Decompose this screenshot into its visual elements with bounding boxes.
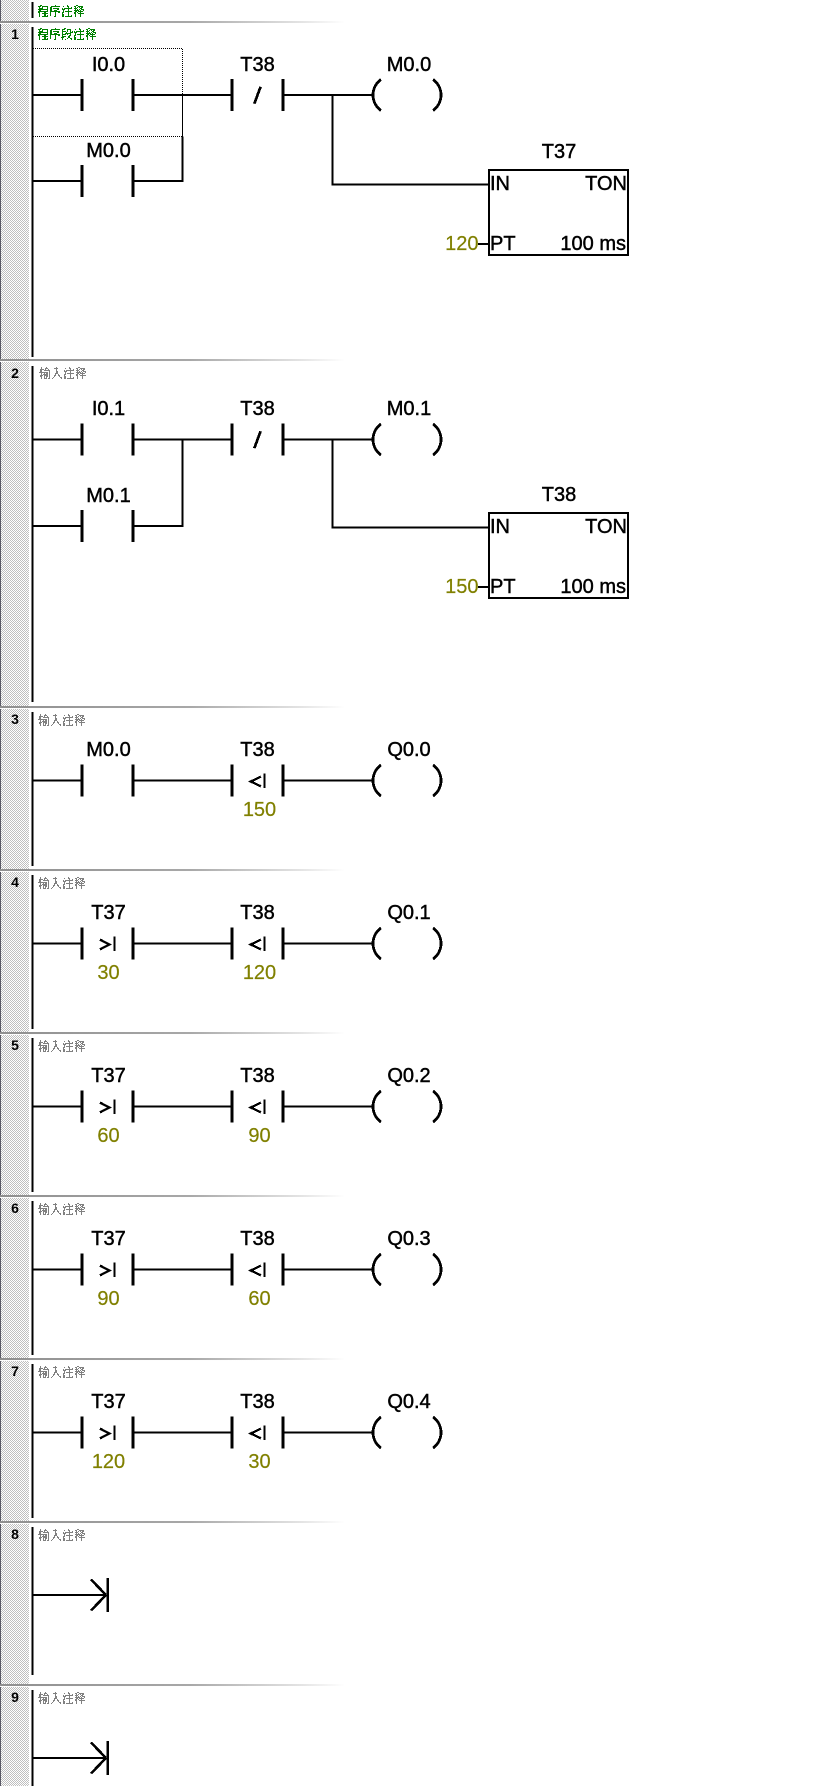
label M0.0 coil — [387, 54, 431, 77]
contact T38 (compare <I) — [231, 765, 285, 797]
comment cursor tick — [32, 1527, 34, 1543]
value 30 — [248, 1451, 270, 1474]
comment cursor tick — [32, 1364, 34, 1380]
comment cursor tick — [32, 1038, 34, 1054]
network 1 comment 程序段注释 — [38, 28, 108, 41]
pin PT — [490, 233, 516, 256]
wire T38 to coil Q0.4 — [285, 1431, 373, 1433]
coil Q0.3 — [373, 1254, 441, 1285]
pin PT — [490, 576, 516, 599]
label T37 — [91, 1228, 125, 1251]
label M0.0 contact — [86, 140, 130, 163]
open network wire — [34, 1757, 105, 1759]
value 90 — [248, 1125, 270, 1148]
label T37 — [91, 902, 125, 925]
network number 5 — [7, 1037, 23, 1053]
network separator — [0, 1195, 345, 1197]
value 30 — [97, 962, 119, 985]
wire — [182, 439, 184, 528]
pin TON — [585, 173, 627, 196]
pin IN — [490, 173, 510, 196]
wire rail to contact M0.0 — [34, 180, 81, 182]
network 8 comment 输入注释 — [38, 1529, 108, 1542]
wire T37 to T38 — [135, 1268, 231, 1270]
wire T38 to coil M0.1 — [285, 438, 373, 440]
margin column — [0, 0, 29, 1786]
open network wire — [34, 1594, 105, 1596]
network number 9 — [7, 1689, 23, 1705]
network 8 power rail — [32, 1527, 34, 1675]
contact I0.1 (NO) — [81, 424, 135, 456]
OR branch vertical — [182, 137, 184, 183]
value 150 — [243, 799, 276, 822]
wire T38 to coil M0.0 — [285, 94, 373, 96]
network number 3 — [7, 711, 23, 727]
PT value tick — [478, 243, 488, 245]
separator under program comment — [0, 21, 345, 23]
network separator — [0, 1684, 345, 1686]
wire T38 to coil Q0.1 — [285, 942, 373, 944]
timer T37 box — [489, 170, 628, 255]
contact T38 (NC) — [231, 424, 285, 456]
label T38 — [240, 902, 274, 925]
wire M0.0 to T38 — [135, 779, 231, 781]
wire M0.1 to branch — [135, 525, 184, 527]
wire rail to contact M0.0 — [34, 779, 81, 781]
preset value 150 — [445, 576, 478, 599]
open network arrow 8 — [91, 1578, 109, 1612]
label 100 ms — [560, 233, 626, 256]
comment cursor tick — [32, 27, 34, 43]
label Q0.2 — [387, 1065, 430, 1088]
label I0.0 — [92, 54, 125, 77]
network separator — [0, 1521, 345, 1523]
value 60 — [97, 1125, 119, 1148]
wire T38 to coil Q0.2 — [285, 1105, 373, 1107]
coil Q0.2 — [373, 1091, 441, 1122]
OR branch vertical (thin inside selection) — [182, 94, 183, 137]
wire T37 to T38 — [135, 942, 231, 944]
label 100 ms — [560, 576, 626, 599]
timer label T38 — [542, 484, 576, 507]
coil Q0.0 — [373, 765, 441, 796]
contact T38 (compare <I) — [231, 928, 285, 960]
program comment text 程序注释 — [38, 5, 108, 18]
wire I0.1 to T38 — [135, 438, 231, 440]
network 1 power rail — [32, 27, 34, 357]
preset value 120 — [445, 233, 478, 256]
contact M0.0 (NO) — [81, 165, 135, 197]
network separator — [0, 869, 345, 871]
wire T37 to T38 — [135, 1105, 231, 1107]
program title cursor tick — [32, 2, 34, 18]
wire — [332, 94, 334, 186]
contact T38 (NC) — [231, 79, 285, 111]
timer T38 box — [489, 513, 628, 598]
label T37 — [91, 1391, 125, 1414]
network 6 power rail — [32, 1201, 34, 1355]
network separator — [0, 1358, 345, 1360]
label M0.1 coil — [387, 398, 431, 421]
value 90 — [97, 1288, 119, 1311]
wire rail to contact M0.1 — [34, 525, 81, 527]
network 6 comment 输入注释 — [38, 1203, 108, 1216]
label T38 — [240, 54, 274, 77]
label Q0.1 — [387, 902, 430, 925]
network number 2 — [7, 365, 23, 381]
contact M0.0 (NO) — [81, 765, 135, 797]
comment cursor tick — [32, 1690, 34, 1706]
network number 4 — [7, 874, 23, 890]
wire to timer T37 IN — [332, 183, 491, 185]
label I0.1 — [92, 398, 125, 421]
wire to timer T38 IN — [332, 526, 491, 528]
network number 6 — [7, 1200, 23, 1216]
comment cursor tick — [32, 1201, 34, 1217]
network 4 power rail — [32, 875, 34, 1029]
label T38 — [240, 1391, 274, 1414]
wire I0.0 to T38 — [135, 94, 231, 96]
wire rail to contact T37 — [34, 1268, 81, 1270]
contact I0.0 (NO) — [81, 79, 135, 111]
wire rail to contact I0.0 — [34, 94, 81, 96]
open network arrow 9 — [91, 1741, 109, 1775]
value 120 — [243, 962, 276, 985]
label T38 — [240, 739, 274, 762]
network number 8 — [7, 1526, 23, 1542]
network 9 comment 输入注释 — [38, 1692, 108, 1705]
wire rail to contact T37 — [34, 1431, 81, 1433]
network 4 comment 输入注释 — [38, 877, 108, 890]
comment cursor tick — [32, 366, 34, 382]
wire T37 to T38 — [135, 1431, 231, 1433]
contact T37 (compare) — [81, 928, 135, 960]
network separator — [0, 359, 345, 361]
timer label T37 — [542, 141, 576, 164]
label T38 network 2 — [240, 398, 274, 421]
wire T38 to coil Q0.3 — [285, 1268, 373, 1270]
value 120 — [92, 1451, 125, 1474]
network number 7 — [7, 1363, 23, 1379]
wire rail to contact I0.1 — [34, 438, 81, 440]
pin TON — [585, 516, 627, 539]
value 60 — [248, 1288, 270, 1311]
label Q0.0 — [387, 739, 430, 762]
label T38 — [240, 1228, 274, 1251]
label M0.1 contact — [86, 485, 130, 508]
contact T37 (compare) — [81, 1417, 135, 1449]
network 5 comment 输入注释 — [38, 1040, 108, 1053]
wire — [332, 439, 334, 529]
coil M0.0 — [373, 80, 441, 111]
label T37 — [91, 1065, 125, 1088]
network 2 power rail — [32, 366, 34, 702]
network 9 power rail — [32, 1690, 34, 1786]
contact T38 (compare <I) — [231, 1417, 285, 1449]
coil Q0.4 — [373, 1417, 441, 1448]
coil Q0.1 — [373, 928, 441, 959]
network separator — [0, 706, 345, 708]
wire rail to contact T37 — [34, 942, 81, 944]
wire T38 to coil Q0.0 — [285, 779, 373, 781]
wire M0.0 to branch — [135, 180, 184, 182]
PT value tick — [478, 586, 488, 588]
network 3 comment 输入注释 — [38, 714, 108, 727]
comment cursor tick — [32, 712, 34, 728]
label Q0.3 — [387, 1228, 430, 1251]
contact M0.1 (NO) — [81, 510, 135, 542]
wire rail to contact T37 — [34, 1105, 81, 1107]
contact T38 (compare <I) — [231, 1091, 285, 1123]
network 5 power rail — [32, 1038, 34, 1192]
comment cursor tick — [32, 875, 34, 891]
network 7 power rail — [32, 1364, 34, 1518]
coil M0.1 — [373, 424, 441, 455]
contact T38 (compare <I) — [231, 1254, 285, 1286]
contact T37 (compare) — [81, 1091, 135, 1123]
network number 1 — [7, 26, 23, 42]
network 7 comment 输入注释 — [38, 1366, 108, 1379]
contact T37 (compare) — [81, 1254, 135, 1286]
selection box around contact I0.0 — [33, 49, 183, 137]
label T38 — [240, 1065, 274, 1088]
label Q0.4 — [387, 1391, 430, 1414]
pin IN — [490, 516, 510, 539]
network 2 comment 输入注释 — [39, 367, 109, 380]
label M0.0 — [86, 739, 130, 762]
network separator — [0, 1032, 345, 1034]
network 3 power rail — [32, 712, 34, 866]
